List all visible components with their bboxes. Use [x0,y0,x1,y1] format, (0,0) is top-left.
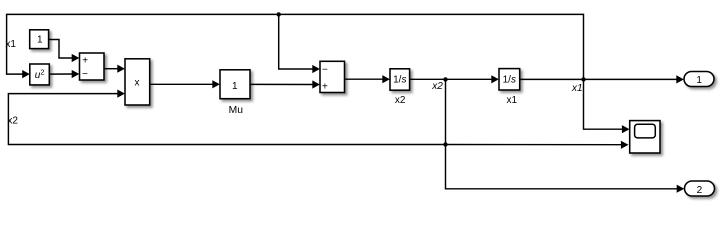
junction x2 lower [443,142,447,146]
wire Mu to sum2 [250,83,314,85]
svg-text:x1: x1 [571,83,583,94]
arrowhead integrator x2 input [382,75,390,83]
wire usq to sum1 [49,73,73,75]
svg-text:2: 2 [697,185,703,196]
wire sum2 to integrator x2 [345,78,385,80]
wire to scope bottom [446,144,623,146]
svg-text:1: 1 [696,75,702,86]
svg-text:−: − [82,69,88,80]
product block x [125,59,150,105]
arrowhead scope bottom input [621,141,629,149]
arrowhead sum2 minus input [312,65,320,73]
constant block 1 [30,30,49,49]
svg-text:1: 1 [37,35,43,46]
scope block [630,121,660,153]
junction x2 [443,77,447,81]
sum block 1 [80,53,105,80]
wire integrator x2 to integrator x1 [410,78,493,80]
wire to out2 [446,145,679,189]
wire product to Mu [150,83,214,85]
sum block 2 [320,61,345,92]
math function block u^2 [30,64,50,85]
svg-text:x1: x1 [5,39,16,50]
svg-text:x2: x2 [7,115,18,126]
integrator block x2 [390,69,410,90]
svg-text:x2: x2 [395,95,406,106]
svg-text:−: − [322,64,328,75]
wire to scope top [584,79,624,129]
scope screen [635,124,656,138]
arrowhead product input1 [117,65,125,73]
outport 1 [684,72,714,87]
arrowhead out2 input [677,185,685,193]
svg-text:x: x [135,78,140,89]
arrowhead integrator x1 input [491,75,499,83]
gain block Mu [220,70,250,99]
svg-text:1/s: 1/s [503,75,516,86]
svg-text:1/s: 1/s [393,75,406,86]
outport 2 [685,181,715,196]
svg-text:2: 2 [40,67,44,76]
svg-text:x1: x1 [507,95,518,106]
wire junction down [445,79,447,144]
arrowhead out1 input [676,75,684,83]
svg-text:Mu: Mu [229,105,244,116]
arrowhead product input2 [117,90,125,98]
wire sum2 minus branch [279,14,314,69]
arrowhead scope top input [622,125,630,133]
arrowhead sum1 minus input [72,70,80,78]
junction x1 [581,77,585,81]
svg-text:+: + [322,81,328,92]
wire integrator x1 to out1 [520,78,678,80]
wire x2 to product [8,94,445,145]
arrowhead sum2 plus input [312,80,320,88]
wire sum1 to product [104,68,119,70]
arrowhead Mu input [212,80,220,88]
wire constant to sum1 [49,40,74,59]
wire x1 feedback top [7,14,584,79]
integrator block x1 [499,69,520,90]
svg-text:1: 1 [232,81,238,92]
junction top [277,12,281,16]
arrowhead sum1 plus input [72,54,80,62]
svg-text:x2: x2 [431,81,443,92]
svg-text:+: + [82,56,88,67]
arrowhead usq input [22,70,30,78]
